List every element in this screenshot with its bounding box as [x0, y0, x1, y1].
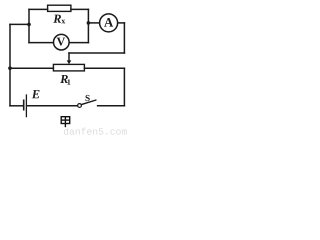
wire R1 to right rail [84, 67, 124, 69]
node junction left rail R1 [8, 66, 12, 70]
wire left rail [9, 24, 11, 105]
wire Rx to top-right corner [71, 8, 89, 10]
ammeter A [100, 14, 118, 32]
resistor Rx [48, 5, 71, 11]
switch S lever [81, 100, 96, 105]
wire node to voltmeter [29, 42, 53, 44]
wire switch to right rail [98, 105, 125, 107]
node junction right vertical [87, 21, 91, 25]
wire bottom left to battery [10, 105, 23, 107]
wire right vertical Rx/V/A node [87, 9, 89, 42]
rheostat slider arrowhead [67, 60, 72, 64]
label E [32, 90, 40, 98]
battery E short plate [23, 100, 25, 109]
wire top-left to Rx [29, 8, 48, 10]
wire slider line [69, 52, 124, 54]
label A [104, 18, 113, 27]
label R1 [60, 75, 68, 83]
wire slider arrow stem [68, 53, 70, 61]
label V [57, 38, 65, 46]
wire left rail to R1 [10, 67, 53, 69]
wire left vertical [28, 9, 30, 42]
wire left junction to left rail [10, 23, 29, 25]
wire right rail upper [123, 23, 125, 53]
wire node to ammeter [88, 22, 99, 24]
wire voltmeter to right vertical [70, 42, 89, 44]
wire right rail lower [123, 68, 125, 106]
rheostat R1 [53, 64, 84, 71]
label S [85, 95, 89, 101]
wire ammeter to right rail [118, 22, 124, 24]
node junction left [27, 23, 31, 27]
voltmeter V [54, 34, 70, 50]
watermark danfen5.com [64, 128, 127, 135]
label Rx [53, 15, 61, 23]
label jia (甲) [61, 117, 69, 128]
battery E long plate [25, 95, 27, 117]
switch S pivot [78, 104, 82, 108]
wire battery to switch [27, 105, 77, 107]
